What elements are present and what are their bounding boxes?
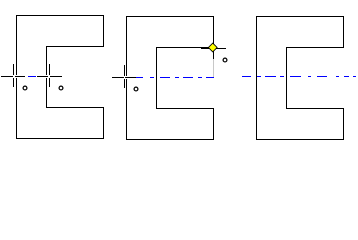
wire: shape2 bottom edge <box>126 139 214 140</box>
wire: shape1 bottom edge <box>16 138 104 139</box>
grip marker (yellow diamond) <box>208 43 218 53</box>
small circle c1 <box>23 86 27 90</box>
crosshair cursor at grip <box>201 48 226 59</box>
wire: shape1 notch inner edge <box>46 46 47 108</box>
wire: shape3 notch top edge <box>286 47 344 48</box>
wire: shape1 top edge <box>16 15 104 16</box>
C-profile shape 3 (right) <box>256 16 344 140</box>
wire: shape2 notch inner edge <box>156 47 157 109</box>
wire: shape2 notch bottom edge <box>156 108 214 109</box>
wire: shape1 right edge upper <box>103 15 104 47</box>
small circle c3 <box>134 87 138 91</box>
C-profile shape 2 (middle) <box>126 16 214 140</box>
center-mark cross B (shape1 inner edge) <box>37 64 62 87</box>
wire: shape3 top edge <box>256 16 344 17</box>
wire: shape1 notch top edge <box>46 46 104 47</box>
centerline dash-dot (blue, shape3 segment) <box>242 76 356 77</box>
white halo of center-mark cross A <box>1 75 25 78</box>
wire: shape3 right edge lower <box>343 108 344 140</box>
center-mark cross A (shape1 left edge) <box>1 64 25 87</box>
wire: shape1 left edge <box>16 15 17 139</box>
wire: shape2 top edge <box>126 16 214 17</box>
wire: shape2 right edge lower <box>213 108 214 140</box>
C-profile shape 1 (left) <box>16 15 104 139</box>
centerline dash (blue, shape1 segment) <box>28 76 36 77</box>
wire: shape3 bottom edge <box>256 139 344 140</box>
rubber-band line (gray, grip stretch) <box>213 59 214 77</box>
centerline dash-dot (blue, shape2 segment) <box>136 77 214 78</box>
wire: shape3 left edge <box>256 16 257 140</box>
wire: shape2 left edge <box>126 16 127 140</box>
center-mark cross C (shape2 left edge) <box>112 65 136 88</box>
wire: shape3 notch inner edge <box>286 47 287 109</box>
white halo of center-mark cross C <box>112 76 136 79</box>
small circle c4 <box>223 58 227 62</box>
wire: shape1 right edge lower <box>103 107 104 139</box>
wire: shape1 notch bottom edge <box>46 107 104 108</box>
wire: shape2 right edge upper <box>213 16 214 48</box>
wire: shape3 notch bottom edge <box>286 108 344 109</box>
small circle c2 <box>59 86 63 90</box>
wire: shape2 notch top edge <box>156 47 214 48</box>
white halo of center-mark cross B <box>37 75 62 78</box>
wire: shape3 right edge upper <box>343 16 344 48</box>
